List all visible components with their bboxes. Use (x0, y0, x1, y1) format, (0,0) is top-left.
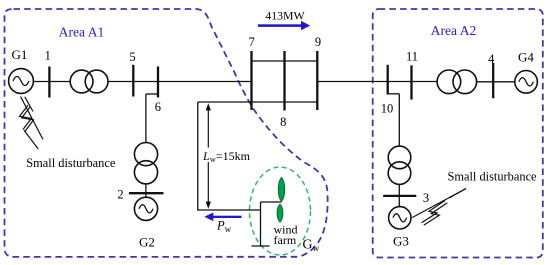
svg-text:farm: farm (274, 233, 297, 247)
svg-text:G3: G3 (393, 234, 409, 249)
svg-text:11: 11 (406, 50, 418, 64)
svg-text:10: 10 (381, 102, 394, 116)
svg-text:1: 1 (45, 49, 51, 63)
svg-text:6: 6 (155, 100, 161, 114)
svg-text:8: 8 (280, 115, 286, 129)
svg-text:Lw=15km: Lw=15km (202, 149, 251, 164)
svg-text:7: 7 (249, 35, 255, 49)
svg-text:2: 2 (117, 187, 123, 201)
svg-text:G2: G2 (139, 235, 155, 250)
svg-text:G1: G1 (12, 47, 28, 62)
svg-text:Small disturbance: Small disturbance (26, 156, 116, 170)
svg-text:Pw: Pw (216, 219, 232, 235)
svg-text:9: 9 (315, 35, 321, 49)
svg-text:Gw: Gw (303, 237, 320, 254)
svg-text:Area A1: Area A1 (59, 25, 105, 40)
svg-text:413MW: 413MW (265, 9, 305, 23)
svg-text:3: 3 (423, 191, 429, 205)
svg-text:Small disturbance: Small disturbance (447, 170, 537, 184)
svg-text:4: 4 (488, 52, 495, 66)
svg-text:Area A2: Area A2 (431, 23, 477, 38)
svg-text:5: 5 (129, 50, 135, 64)
svg-text:G4: G4 (518, 50, 534, 65)
